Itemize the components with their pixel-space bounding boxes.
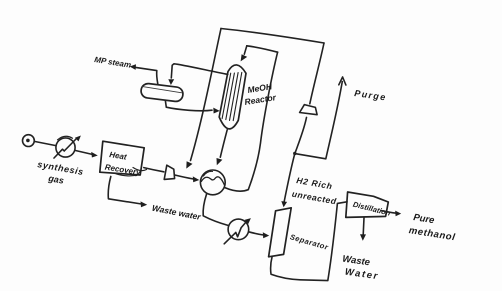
MP steam wire: [135, 67, 158, 84]
wire valve to mixer A: [175, 175, 194, 179]
wire junction down to separator: [284, 154, 295, 202]
wire reactor top to drum (steam riser): [171, 64, 228, 78]
inner feed loop top edge: [247, 46, 278, 52]
wire drum bottom to reactor (water return): [165, 101, 212, 111]
label Waste Water: [342, 254, 380, 283]
heat recovery box: [100, 141, 144, 175]
steam drum: [140, 83, 183, 102]
wire distillation bottom to waste water: [362, 218, 365, 235]
junction node: [293, 152, 296, 155]
letdown valve (trapezoid): [164, 165, 174, 179]
label Purge: [354, 88, 388, 102]
wire compressor to heat recovery: [75, 150, 93, 154]
wire separator bottom to distillation: [271, 202, 347, 281]
compressor K1 (circle with diagonal arrow): [54, 136, 81, 159]
recycle loop right edge upper: [310, 43, 324, 104]
label Waste water: [151, 203, 202, 222]
recycle compressor (trapezoid): [300, 105, 318, 115]
label synthesis gas: [37, 159, 85, 186]
drum level line: [143, 87, 182, 93]
inner feed loop right edge: [248, 52, 277, 189]
label MP steam: [94, 55, 132, 70]
MeOH reactor shell: [219, 65, 246, 129]
label Separator: [289, 232, 330, 252]
separator vessel: [269, 208, 292, 257]
wire heat recovery to waste water: [108, 177, 141, 205]
cooler B (circle with zigzag arrow): [224, 218, 251, 244]
label Pure methanol: [408, 212, 456, 243]
label MeOH Reactor: [244, 81, 278, 107]
distillation box: [346, 192, 389, 217]
label Distillation with arrow: [352, 200, 392, 218]
wire heat recovery to valve: [144, 168, 164, 172]
mixer/flash circle A: [200, 170, 225, 195]
wire source to compressor: [34, 141, 56, 145]
label Heat Recovery: [104, 150, 142, 177]
label H2 Rich unreacted: [291, 175, 337, 206]
inner feed loop bottom to mixer A: [225, 188, 249, 192]
source circle (syngas origin): [23, 135, 35, 147]
purge open arrowhead: [339, 77, 346, 85]
wire reactor bottom to mixer A: [220, 130, 227, 157]
reactor tubes: [222, 73, 231, 118]
wire recycle compressor down to junction: [295, 117, 307, 153]
wire cooler B to separator: [249, 232, 264, 235]
recycle loop top edge: [221, 29, 324, 44]
recycle loop left edge with arrow: [191, 29, 222, 161]
wire mixer A down: [203, 194, 229, 225]
inner feed loop: arrow into reactor top: [244, 46, 247, 54]
purge branch wire: [295, 82, 343, 159]
